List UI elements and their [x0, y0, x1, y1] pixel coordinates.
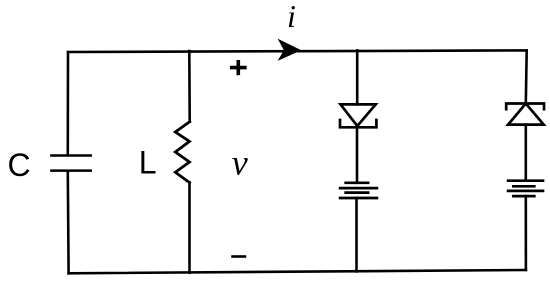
capacitor C plates	[51, 156, 90, 171]
wire zener1 branch upper	[356, 50, 359, 104]
svg-text:C: C	[8, 147, 31, 183]
zener diode D1 (left clamp) triangle	[341, 104, 376, 126]
wire left branch upper (to capacitor)	[67, 52, 70, 154]
battery B1	[340, 183, 377, 198]
wire left branch lower (from capacitor)	[67, 172, 70, 273]
current arrow i direction	[278, 39, 302, 61]
wire top horizontal	[68, 50, 527, 52]
inductor L zigzag	[175, 122, 189, 183]
zener diode D2 cathode bar	[506, 104, 544, 110]
wire bottom horizontal	[69, 270, 526, 273]
wire zener1 to battery1	[356, 127, 359, 183]
wire battery1 lower	[355, 198, 358, 271]
zener diode D1 cathode bar	[340, 120, 376, 127]
battery B2	[508, 181, 543, 196]
svg-text:i: i	[287, 0, 296, 34]
plus sign (v polarity +)	[230, 60, 247, 75]
wire battery2 lower	[524, 196, 527, 270]
minus sign (v polarity -)	[231, 255, 246, 258]
svg-text:L: L	[139, 145, 157, 181]
svg-text:v: v	[232, 143, 248, 183]
wire zener2 branch upper	[524, 50, 528, 103]
wire zener2 to battery2	[524, 125, 527, 181]
wire inductor branch lower	[188, 183, 191, 273]
wire inductor branch upper	[188, 51, 191, 122]
zener diode D2 triangle	[508, 104, 544, 125]
